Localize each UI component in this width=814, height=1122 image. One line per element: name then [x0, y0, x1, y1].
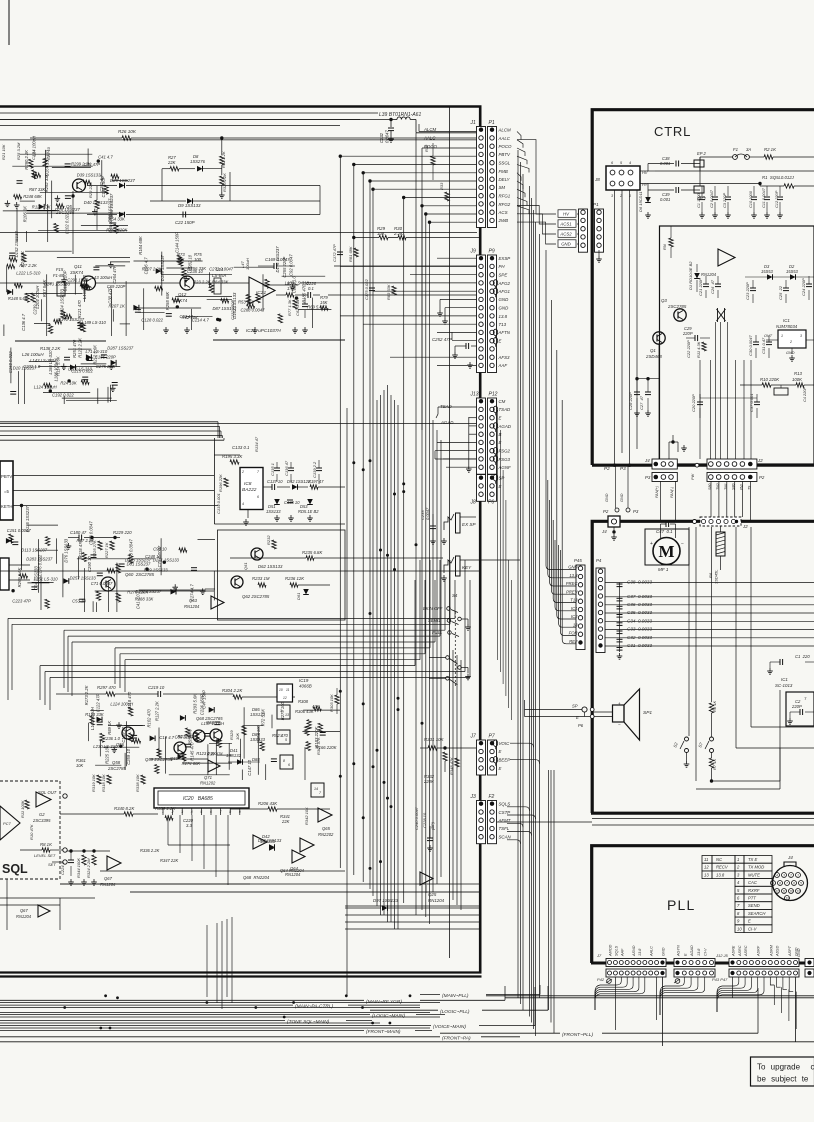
svg-text:R274 68K: R274 68K: [182, 761, 201, 766]
svg-text:13: 13: [704, 872, 709, 877]
svg-text:TSAD: TSAD: [499, 407, 512, 412]
svg-text:R225 27K: R225 27K: [92, 540, 97, 558]
svg-text:E: E: [499, 416, 502, 421]
svg-text:KETH: KETH: [1, 504, 12, 509]
svg-text:C186 220P: C186 220P: [95, 354, 116, 359]
svg-text:5: 5: [200, 810, 202, 814]
svg-text:E: E: [683, 953, 687, 956]
svg-text:AGNF: AGNF: [498, 465, 512, 470]
svg-text:SEARCH: SEARCH: [748, 911, 766, 916]
svg-text:L186 100uH: L186 100uH: [54, 358, 59, 382]
svg-text:0.0047: 0.0047: [425, 507, 430, 520]
svg-text:GND: GND: [797, 948, 801, 957]
svg-text:P6: P6: [488, 500, 494, 506]
svg-text:IC1: IC1: [571, 606, 578, 611]
svg-text:R118 470: R118 470: [78, 540, 83, 559]
svg-text:R342 10K: R342 10K: [304, 807, 309, 825]
svg-text:3.3: 3.3: [186, 823, 192, 828]
svg-text:J12 J5: J12 J5: [715, 953, 729, 958]
svg-text:SQL: SQL: [2, 862, 28, 876]
svg-text:R11 100K: R11 100K: [20, 800, 25, 818]
svg-text:P3: P3: [633, 509, 639, 514]
svg-text:+: +: [650, 541, 653, 547]
svg-text:7: 7: [786, 881, 788, 885]
svg-text:J9: J9: [470, 249, 477, 255]
svg-text:R338 10K: R338 10K: [135, 774, 140, 792]
svg-text:L26 100uH: L26 100uH: [22, 352, 44, 357]
svg-text:P12: P12: [489, 392, 498, 398]
svg-text:(FRONT~PLL): (FRONT~PLL): [562, 1032, 593, 1038]
svg-text:(VOICE~MAIN): (VOICE~MAIN): [433, 1024, 466, 1030]
svg-text:R173 2.2K: R173 2.2K: [84, 685, 89, 705]
svg-text:C30 0.0047: C30 0.0047: [748, 335, 753, 356]
svg-text:E: E: [748, 919, 751, 924]
svg-text:R336 2.2K: R336 2.2K: [140, 848, 160, 853]
svg-text:6: 6: [793, 881, 795, 885]
svg-text:C232 1.0: C232 1.0: [23, 364, 41, 369]
svg-text:13.8: 13.8: [499, 314, 508, 319]
svg-text:P4: P4: [596, 558, 602, 563]
svg-text:12: 12: [775, 889, 779, 893]
svg-text:12: 12: [283, 696, 287, 700]
svg-text:C273 0.0047: C273 0.0047: [209, 266, 234, 271]
svg-text:(LOGIC~MAIN): (LOGIC~MAIN): [372, 1013, 405, 1019]
svg-text:5: 5: [285, 738, 287, 742]
svg-text:R106 1K: R106 1K: [22, 206, 27, 223]
svg-text:13.8: 13.8: [569, 573, 578, 578]
svg-text:8: 8: [283, 759, 285, 763]
svg-text:FMB: FMB: [499, 169, 508, 174]
svg-text:NJM78034: NJM78034: [776, 324, 798, 329]
svg-text:13.8: 13.8: [638, 948, 642, 956]
svg-text:C128 0.022: C128 0.022: [141, 318, 163, 323]
svg-text:P45: P45: [574, 558, 582, 563]
svg-text:SP: SP: [499, 476, 505, 481]
svg-text:C92 0.0047: C92 0.0047: [288, 254, 293, 276]
svg-text:P42: P42: [597, 977, 605, 982]
svg-text:R33: R33: [439, 182, 444, 190]
svg-text:DELY: DELY: [499, 177, 511, 182]
svg-text:RN1204: RN1204: [701, 272, 717, 277]
svg-text:C27 47: C27 47: [639, 395, 644, 410]
svg-text:C102 0.022: C102 0.022: [64, 212, 69, 234]
svg-text:S80: S80: [708, 484, 712, 490]
svg-text:AMOD: AMOD: [609, 944, 613, 957]
svg-text:R84 33K: R84 33K: [212, 280, 229, 285]
svg-text:LEVEL SET: LEVEL SET: [34, 853, 56, 858]
svg-text:R318 10K: R318 10K: [101, 774, 106, 792]
svg-text:R55 470: R55 470: [188, 729, 193, 746]
svg-text:R227 1K: R227 1K: [104, 542, 109, 558]
svg-text:J4: J4: [787, 855, 793, 860]
svg-text:C137 10: C137 10: [267, 479, 283, 484]
svg-text:FAN(+): FAN(+): [655, 485, 659, 498]
svg-text:D283 1SS237: D283 1SS237: [26, 556, 53, 561]
svg-text:RN2202: RN2202: [318, 832, 334, 837]
svg-text:C41 4.7: C41 4.7: [98, 154, 113, 159]
svg-text:T9: T9: [748, 486, 752, 490]
svg-text:C22 150P: C22 150P: [175, 220, 195, 225]
svg-text:1SS133: 1SS133: [266, 509, 281, 514]
svg-text:D271 1SS133: D271 1SS133: [153, 557, 180, 562]
svg-text:1: 1: [737, 857, 739, 862]
svg-text:R246 1K: R246 1K: [20, 251, 25, 268]
svg-text:10: 10: [737, 926, 742, 931]
svg-text:8: 8: [779, 881, 781, 885]
svg-text:AGAD: AGAD: [498, 424, 512, 429]
svg-text:(FRONT~PA): (FRONT~PA): [442, 1035, 471, 1041]
svg-text:C252 47P: C252 47P: [432, 337, 452, 342]
svg-text:ASND: ASND: [632, 945, 636, 957]
svg-text:R6: R6: [708, 572, 713, 578]
svg-text:0.0047: 0.0047: [385, 130, 390, 143]
svg-text:R293 5.6K: R293 5.6K: [192, 694, 197, 714]
svg-text:Q58: Q58: [112, 760, 121, 765]
svg-text:Q68 RN2204: Q68 RN2204: [243, 875, 270, 880]
svg-text:R134 47: R134 47: [254, 436, 259, 452]
svg-text:R89 1K: R89 1K: [107, 721, 112, 735]
svg-text:CAC: CAC: [748, 880, 758, 885]
svg-text:AFG1: AFG1: [498, 289, 511, 294]
svg-text:R127 2.2K: R127 2.2K: [154, 701, 159, 721]
svg-text:C11 0.0047: C11 0.0047: [761, 187, 766, 208]
svg-text:4: 4: [242, 502, 244, 506]
svg-text:14: 14: [314, 787, 318, 791]
svg-text:E: E: [499, 766, 502, 771]
svg-text:4: 4: [191, 810, 193, 814]
svg-text:C224 1: C224 1: [60, 862, 65, 875]
svg-text:P7: P7: [489, 734, 495, 740]
svg-text:R138 2.2K: R138 2.2K: [40, 346, 61, 351]
svg-text:J2: J2: [742, 524, 748, 529]
svg-text:C38 0.0033: C38 0.0033: [627, 580, 652, 585]
svg-text:9: 9: [239, 810, 241, 814]
svg-text:J3: J3: [470, 794, 477, 800]
svg-text:C32 0.0033: C32 0.0033: [627, 635, 652, 640]
svg-text:ALCM: ALCM: [498, 128, 512, 133]
svg-text:5: 5: [800, 881, 802, 885]
svg-text:S4: S4: [452, 593, 458, 598]
svg-text:SM: SM: [499, 185, 506, 190]
svg-text:3: 3: [800, 334, 802, 338]
svg-text:R320 2.2K: R320 2.2K: [222, 173, 227, 192]
svg-text:AAF: AAF: [498, 363, 508, 368]
svg-text:ASPT: ASPT: [788, 945, 792, 957]
svg-text:ASRC: ASRC: [738, 945, 742, 957]
svg-text:15S53: 15S53: [786, 269, 799, 274]
svg-text:J8: J8: [470, 500, 477, 506]
svg-text:Q65: Q65: [322, 826, 331, 831]
svg-text:R184 68K: R184 68K: [138, 236, 143, 255]
svg-text:D61: D61: [296, 593, 301, 600]
svg-text:C35 0.0033: C35 0.0033: [627, 610, 652, 615]
svg-text:Q25: Q25: [428, 892, 437, 897]
svg-text:C172 47P: C172 47P: [332, 244, 337, 262]
svg-text:R102 100: R102 100: [256, 724, 261, 743]
svg-text:C144 150P: C144 150P: [174, 232, 179, 253]
svg-text:4: 4: [776, 873, 778, 877]
svg-text:FAN(-): FAN(-): [670, 486, 674, 498]
svg-text:2: 2: [241, 470, 244, 474]
svg-text:C26 47: C26 47: [710, 279, 715, 294]
svg-text:2SC3395: 2SC3395: [32, 818, 51, 823]
svg-text:R304 2.2K: R304 2.2K: [222, 688, 243, 693]
svg-text:C24 220P: C24 220P: [801, 278, 806, 296]
svg-text:3A: 3A: [746, 147, 751, 152]
svg-text:8: 8: [229, 810, 231, 814]
svg-text:PC7: PC7: [3, 821, 12, 826]
svg-text:R148 5.6K: R148 5.6K: [8, 296, 28, 301]
svg-text:6: 6: [210, 810, 212, 814]
svg-text:R166 220K: R166 220K: [316, 745, 337, 750]
svg-text:AGYN: AGYN: [677, 945, 681, 957]
svg-text:F1-88: F1-88: [53, 273, 65, 278]
svg-text:R10 47K: R10 47K: [29, 824, 34, 840]
svg-text:Q67: Q67: [104, 876, 113, 881]
svg-text:2: 2: [789, 873, 792, 877]
svg-text:AALC: AALC: [498, 136, 511, 141]
svg-text:R197 47: R197 47: [308, 479, 324, 484]
svg-text:6: 6: [257, 495, 259, 499]
svg-text:J7: J7: [596, 953, 602, 958]
svg-text:FOR: FOR: [569, 631, 578, 636]
svg-text:RN1204: RN1204: [428, 898, 445, 903]
svg-text:ASRC: ASRC: [744, 945, 748, 957]
svg-text:R28 22K: R28 22K: [88, 182, 93, 198]
svg-text:EXSP: EXSP: [499, 256, 511, 261]
svg-text:PW: PW: [691, 473, 695, 480]
svg-text:D6 15CD11: D6 15CD11: [638, 191, 643, 212]
svg-text:D78 1SS237: D78 1SS237: [107, 198, 112, 222]
svg-text:F2: F2: [489, 794, 495, 800]
svg-text:R24 10K: R24 10K: [60, 380, 77, 385]
svg-text:P1: P1: [593, 202, 599, 207]
svg-text:13: 13: [785, 896, 789, 900]
svg-text:ACS2: ACS2: [559, 232, 572, 237]
svg-text:L124 100uH: L124 100uH: [110, 702, 134, 707]
svg-text:SSGL: SSGL: [499, 161, 511, 166]
svg-text:ASRF: ASRF: [757, 945, 761, 957]
svg-text:RN1204: RN1204: [16, 914, 32, 919]
svg-text:IC20 BA685: IC20 BA685: [183, 796, 213, 802]
svg-text:D29 1SS237: D29 1SS237: [110, 178, 135, 183]
svg-text:Q60 2SC2785: Q60 2SC2785: [125, 572, 155, 577]
svg-text:TSAD: TSAD: [440, 404, 453, 409]
svg-text:C202 10: C202 10: [187, 254, 192, 271]
svg-text:C136 4.7: C136 4.7: [21, 313, 26, 331]
svg-text:C223 47P: C223 47P: [12, 599, 31, 604]
svg-text:L177 100uH: L177 100uH: [201, 721, 225, 726]
svg-text:R23 2.2K: R23 2.2K: [193, 280, 211, 285]
svg-text:TX MOD: TX MOD: [748, 865, 764, 870]
svg-text:TX E: TX E: [748, 857, 758, 862]
svg-text:PW: PW: [740, 484, 744, 490]
svg-text:E: E: [499, 339, 502, 344]
svg-text:C31 0.47: C31 0.47: [761, 337, 766, 354]
svg-text:11: 11: [286, 688, 290, 692]
svg-text:SQLS: SQLS: [499, 802, 511, 807]
svg-text:SC-1013: SC-1013: [775, 683, 793, 688]
svg-text:J4: J4: [601, 529, 607, 534]
svg-text:RD5.1E B2: RD5.1E B2: [298, 509, 319, 514]
svg-text:C19 1: C19 1: [31, 149, 36, 160]
svg-text:R185 470: R185 470: [301, 284, 306, 303]
svg-text:G2: G2: [39, 812, 45, 817]
svg-text:VOIC: VOIC: [499, 741, 511, 746]
svg-text:P2: P2: [759, 475, 765, 480]
svg-text:C147 10: C147 10: [247, 759, 252, 776]
svg-text:R347 22K: R347 22K: [160, 858, 178, 863]
svg-text:CTRL: CTRL: [654, 124, 691, 139]
svg-text:IC2: IC2: [571, 614, 578, 619]
svg-text:(MAIN~RF YGR): (MAIN~RF YGR): [366, 999, 402, 1005]
svg-text:P2: P2: [604, 466, 610, 471]
svg-text:KEY: KEY: [462, 565, 472, 570]
svg-text:GND: GND: [561, 242, 571, 247]
svg-text:C1 1000: C1 1000: [696, 192, 701, 208]
svg-text:D9 1SS133: D9 1SS133: [178, 203, 201, 208]
svg-text:C36 0.0033: C36 0.0033: [627, 602, 652, 607]
svg-text:TSFL: TSFL: [499, 826, 510, 831]
svg-text:D88: D88: [252, 757, 260, 762]
svg-text:C139 2.2: C139 2.2: [312, 461, 317, 478]
svg-text:AALC: AALC: [650, 946, 654, 957]
svg-text:EP 2: EP 2: [697, 151, 706, 156]
svg-text:R13: R13: [794, 371, 802, 376]
svg-text:C2 0.0047: C2 0.0047: [709, 189, 714, 208]
svg-text:PLL: PLL: [667, 897, 696, 913]
svg-text:+: +: [618, 701, 621, 706]
svg-text:TN2: TN2: [716, 483, 720, 490]
svg-text:ASSD: ASSD: [776, 945, 780, 957]
svg-text:P6: P6: [578, 723, 584, 728]
svg-text:R69 5.6K: R69 5.6K: [307, 305, 325, 310]
svg-text:AGAD: AGAD: [690, 945, 694, 957]
svg-text:L188 LS-310: L188 LS-310: [48, 350, 53, 375]
svg-text:C1 220: C1 220: [795, 654, 810, 659]
svg-text:Q64 RN1204: Q64 RN1204: [280, 868, 305, 873]
svg-text:SEND: SEND: [748, 903, 760, 908]
svg-text:ASRE: ASRE: [732, 945, 736, 957]
svg-text:ACS1: ACS1: [559, 222, 572, 227]
svg-text:GND: GND: [499, 297, 510, 302]
svg-text:C122 47P: C122 47P: [95, 693, 100, 712]
svg-text:R258 68K: R258 68K: [165, 291, 170, 310]
svg-text:AFS3: AFS3: [498, 355, 511, 360]
svg-text:R53 47K: R53 47K: [238, 300, 255, 305]
svg-text:Q67: Q67: [20, 908, 28, 913]
svg-text:1SS132: 1SS132: [226, 753, 242, 758]
svg-text:R297 470: R297 470: [97, 685, 116, 690]
svg-text:E: E: [576, 715, 579, 720]
svg-text:=5: =5: [4, 489, 10, 494]
svg-text:C37 0.001: C37 0.001: [749, 394, 754, 412]
svg-text:Q62 2SC2785: Q62 2SC2785: [242, 594, 270, 599]
svg-text:R308: R308: [298, 699, 309, 704]
svg-text:D62 1SS133: D62 1SS133: [258, 564, 283, 569]
svg-text:GND: GND: [568, 565, 577, 570]
svg-text:R269 5.6K: R269 5.6K: [17, 567, 22, 587]
svg-text:R123 2.2K: R123 2.2K: [196, 751, 216, 756]
svg-text:C22 220P: C22 220P: [686, 340, 691, 358]
svg-text:100uH: 100uH: [245, 258, 250, 270]
svg-text:9: 9: [772, 881, 774, 885]
svg-text:C47 150P: C47 150P: [202, 690, 207, 709]
svg-text:RN1204: RN1204: [100, 882, 116, 887]
svg-text:GND: GND: [662, 947, 666, 956]
svg-text:OUT: OUT: [764, 334, 773, 338]
svg-text:RECV: RECV: [716, 865, 729, 870]
svg-text:R319 10K: R319 10K: [91, 774, 96, 792]
svg-text:MF 1: MF 1: [658, 567, 669, 572]
svg-text:C21 220P: C21 220P: [698, 278, 703, 296]
svg-text:R11 4.3K: R11 4.3K: [696, 341, 701, 358]
svg-text:GND: GND: [620, 493, 624, 502]
svg-text:D136 1SS237: D136 1SS237: [25, 505, 30, 532]
svg-text:C291 150P: C291 150P: [67, 277, 88, 282]
svg-text:C41 1.0: C41 1.0: [135, 594, 140, 609]
svg-text:D162 1SS133: D162 1SS133: [232, 292, 237, 319]
svg-text:SP1: SP1: [643, 710, 652, 716]
svg-text:C20 10: C20 10: [46, 146, 51, 160]
svg-text:D39 1SS133: D39 1SS133: [77, 172, 101, 177]
svg-text:(BP): (BP): [430, 821, 435, 830]
svg-text:C275 220P: C275 220P: [96, 364, 117, 369]
svg-text:SEMI1: SEMI1: [428, 618, 441, 623]
svg-text:L151 LS-310: L151 LS-310: [34, 577, 59, 582]
svg-text:AAF: AAF: [620, 948, 624, 957]
svg-text:13.8: 13.8: [697, 948, 701, 956]
svg-text:2SC2785: 2SC2785: [667, 304, 687, 309]
svg-text:(FRONT~MAIN): (FRONT~MAIN): [366, 1029, 401, 1035]
svg-text:R207 1K: R207 1K: [109, 304, 126, 309]
svg-text:GND: GND: [499, 306, 510, 311]
svg-text:GND: GND: [605, 493, 609, 502]
svg-text:7: 7: [220, 810, 222, 814]
svg-text:ACS: ACS: [498, 210, 508, 215]
svg-text:R344 100K: R344 100K: [76, 858, 81, 878]
svg-text:3SD45L: 3SD45L: [714, 570, 719, 584]
svg-text:0.1: 0.1: [308, 286, 314, 291]
svg-text:3SK74: 3SK74: [70, 270, 84, 275]
svg-text:R225 100: R225 100: [105, 745, 110, 764]
svg-text:R87 33K: R87 33K: [29, 187, 46, 192]
svg-text:C31 0.0033: C31 0.0033: [627, 643, 652, 648]
svg-text:IC8: IC8: [244, 481, 252, 487]
svg-text:C10 1000: C10 1000: [748, 190, 753, 208]
svg-text:L222 LS-310: L222 LS-310: [16, 271, 41, 276]
svg-text:C175 0.022: C175 0.022: [364, 279, 369, 300]
svg-text:1: 1: [781, 334, 783, 338]
svg-text:PREV: PREV: [566, 590, 579, 595]
svg-text:R72 5.6K: R72 5.6K: [261, 709, 266, 727]
svg-text:To upgrade c: To upgrade c: [757, 1063, 814, 1072]
svg-text:Q59 2SC2785: Q59 2SC2785: [145, 757, 173, 762]
svg-text:R279 100: R279 100: [280, 701, 285, 720]
svg-text:C23 220P: C23 220P: [745, 282, 750, 300]
svg-text:C12 220P: C12 220P: [774, 190, 779, 208]
svg-text:C133 0.1: C133 0.1: [232, 445, 250, 450]
svg-text:(LOGIC~PLL): (LOGIC~PLL): [440, 1009, 470, 1015]
svg-text:C219 10: C219 10: [148, 685, 165, 690]
svg-text:R1 SQ5L0.012J: R1 SQ5L0.012J: [762, 175, 795, 180]
svg-text:C83 47P: C83 47P: [84, 162, 101, 167]
svg-text:R229 220: R229 220: [113, 530, 132, 535]
svg-text:SP: SP: [572, 704, 578, 709]
svg-text:NC: NC: [716, 857, 723, 862]
svg-text:RXRF: RXRF: [748, 888, 760, 893]
svg-text:D28 1SS237: D28 1SS237: [55, 207, 80, 212]
